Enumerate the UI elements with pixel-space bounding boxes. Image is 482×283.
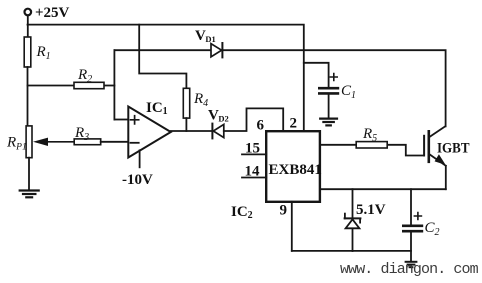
transistor Q1 IGBT: [424, 126, 469, 166]
svg-text:www. diangon. com: www. diangon. com: [340, 261, 479, 278]
wire C1 to ground: [328, 95, 330, 118]
pin 15 stub: [242, 140, 266, 156]
ground below C2: [406, 262, 417, 267]
wire RP1 to ground: [28, 158, 30, 190]
diode VD1: [195, 28, 222, 58]
wire zener branch: [352, 189, 354, 251]
wire to op-amp + input: [114, 119, 128, 121]
wire +25V rail to pin 2 of EXB841: [28, 25, 304, 132]
wire C1 branch from pin 2 line: [304, 63, 329, 87]
wire R4 to output node: [185, 118, 187, 131]
wire R1 to RP1: [27, 67, 29, 126]
wire terminal to R1: [27, 15, 29, 37]
pin 9 wire to bottom rail: [280, 202, 292, 251]
wire feedback rail to R4: [139, 25, 186, 89]
watermark www.diangon.com: [340, 261, 479, 278]
node A vertical joining R2, VD1 rail and op-amp + input: [113, 50, 115, 119]
svg-text:EXB841: EXB841: [269, 162, 322, 178]
wire bottom rail pin 9 to C2: [292, 250, 411, 252]
capacitor C1: [319, 74, 356, 101]
wire IGBT emitter down to rail: [445, 166, 447, 189]
diode VD2: [208, 108, 229, 139]
resistor R3: [74, 125, 101, 145]
node +25V terminal: [25, 5, 70, 21]
svg-text:IGBT: IGBT: [437, 141, 470, 157]
op-amp negative supply pin: [122, 150, 153, 188]
IC2 EXB841: [231, 131, 322, 221]
wire VD2 to pin 6 of EXB841: [224, 108, 283, 131]
svg-text:14: 14: [245, 163, 261, 179]
svg-text:5.1V: 5.1V: [356, 202, 386, 218]
wire R3 to op-amp - input: [101, 141, 129, 143]
svg-text:9: 9: [280, 203, 288, 219]
svg-text:2: 2: [290, 116, 298, 132]
zener diode 5.1V: [345, 202, 386, 228]
wire R2 branch: [28, 85, 115, 87]
resistor R2: [74, 67, 104, 89]
resistor R4: [183, 88, 208, 118]
potentiometer RP1: [6, 126, 74, 158]
svg-text:-10V: -10V: [122, 172, 153, 188]
pin 14 stub: [242, 163, 266, 179]
svg-text:6: 6: [257, 118, 265, 134]
ground below C1: [320, 119, 337, 126]
pin 6 label: [257, 118, 265, 134]
svg-text:+25V: +25V: [35, 5, 70, 21]
wire VD1 rail: [114, 50, 445, 126]
capacitor C2: [403, 213, 439, 239]
wire op-amp output to VD2: [171, 130, 213, 132]
pin 2 label: [290, 116, 298, 132]
svg-text:15: 15: [245, 140, 260, 156]
resistor R5: [356, 126, 387, 148]
wire C2 branch: [410, 189, 412, 261]
ground below RP1: [20, 191, 39, 198]
resistor R1: [24, 37, 50, 67]
op-amp U1 IC1: [128, 100, 171, 158]
wire emitter rail from EXB841: [320, 188, 446, 190]
wire R5 from EXB841: [320, 145, 424, 156]
